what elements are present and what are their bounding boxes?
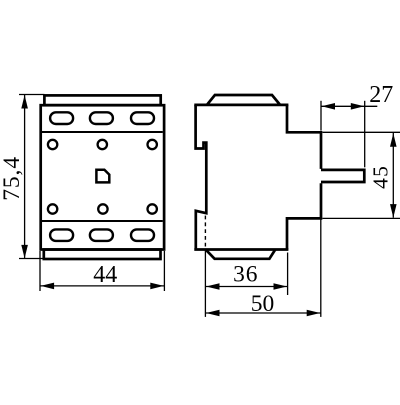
screw hole bottom-middle (98, 204, 107, 213)
dim 36 arrow left (206, 283, 220, 290)
dim 45 arrow up (390, 133, 397, 147)
svg-text:44: 44 (93, 262, 117, 288)
svg-text:75,4: 75,4 (0, 156, 25, 201)
front view upper seam line (42, 131, 163, 133)
dim text 75,4 (0, 156, 25, 201)
hidden edge dashed line (204, 216, 206, 247)
dim 45 arrow down (390, 204, 397, 218)
terminal slot top-middle (90, 112, 113, 124)
front view bottom cap (44, 250, 161, 260)
svg-text:36: 36 (233, 262, 258, 288)
terminal pin outline (321, 170, 364, 182)
front view top cap (44, 95, 160, 105)
svg-text:27: 27 (369, 82, 393, 108)
side view body bottom edge (194, 248, 288, 251)
terminal slot bottom-right (131, 229, 154, 241)
dim 27 arrow right (351, 103, 365, 110)
dim 44 arrow right (150, 283, 164, 290)
svg-text:45: 45 (369, 165, 393, 189)
toggle window pentagon (96, 170, 109, 183)
dim 36 extension line right (287, 253, 289, 296)
dim 50 arrow right (307, 310, 321, 317)
side view right contour lower: block right edge, block bottom, body edge (287, 183, 321, 249)
dim 75,4 extension line bottom (19, 258, 44, 260)
dim 36 extension line left shared with dim 50 (204, 251, 206, 317)
terminal slot top-right (131, 112, 154, 124)
terminal slot top-left (50, 112, 73, 124)
dim 50 dimension line (205, 312, 320, 314)
screw hole top-middle (98, 140, 107, 149)
dim 36 arrow right (274, 283, 288, 290)
screw hole bottom-right (148, 204, 157, 213)
screw hole top-right (148, 140, 157, 149)
dim 50 extension line right (320, 220, 322, 317)
dim 45 extension line bottom (323, 217, 400, 219)
dim 75,4 arrow up (21, 95, 28, 109)
dim 45 extension line top (323, 131, 400, 133)
side view body left contour with DIN clip notch (196, 105, 207, 250)
screw hole bottom-left (48, 204, 57, 213)
svg-text:50: 50 (251, 291, 275, 317)
side view body top edge (194, 104, 288, 107)
side view bottom cap trapezoid (206, 250, 276, 259)
dim 27 extension line right (364, 101, 366, 168)
dim 75,4 dimension line (24, 95, 26, 258)
dim 44 dimension line (40, 285, 164, 287)
screw hole top-left (48, 140, 57, 149)
front view body outline (41, 105, 164, 249)
dim 36 dimension line (205, 286, 287, 288)
dim 75,4 extension line top (19, 94, 44, 96)
dim 44 arrow left (41, 283, 55, 290)
dim 44 extension line right (163, 251, 165, 291)
dim 44 extension line left (39, 251, 41, 291)
terminal slot bottom-middle (90, 229, 113, 241)
dim 45 dimension line (392, 133, 394, 218)
terminal slot bottom-left (50, 229, 73, 241)
dim 50 arrow left (206, 310, 220, 317)
side view right contour upper: body edge and mount block top (287, 105, 321, 169)
dim 27 dimension line (321, 105, 377, 107)
dim 27 arrow left (322, 103, 336, 110)
front view lower seam line (42, 220, 163, 222)
side view top cap trapezoid (207, 95, 280, 105)
dim 75,4 arrow down (21, 245, 28, 259)
dim 27 extension line left (320, 101, 322, 131)
dim text 45 (369, 165, 393, 189)
